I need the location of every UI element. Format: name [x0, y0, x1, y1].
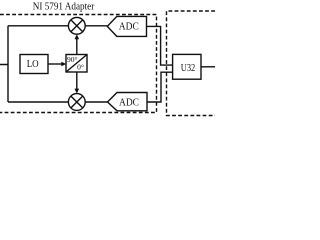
svg-text:90°: 90°: [67, 55, 78, 64]
svg-text:ADC: ADC: [119, 21, 139, 32]
svg-text:ADC: ADC: [119, 97, 139, 108]
svg-text:NI 5791 Adapter: NI 5791 Adapter: [33, 1, 95, 13]
svg-text:LO: LO: [27, 59, 39, 70]
svg-text:0°: 0°: [77, 62, 84, 71]
svg-text:U32: U32: [181, 63, 196, 74]
